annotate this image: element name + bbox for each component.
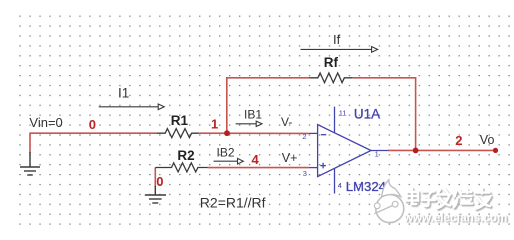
wire feedback top right <box>353 77 417 79</box>
svg-text:R1: R1 <box>171 113 189 128</box>
op-amp power pin 11 <box>334 107 336 133</box>
svg-text:0: 0 <box>89 117 96 132</box>
junction node 1 <box>224 130 230 136</box>
svg-text:R2=R1//Rf: R2=R1//Rf <box>200 194 266 210</box>
svg-text:11: 11 <box>339 109 347 118</box>
svg-text:Vin=0: Vin=0 <box>29 115 62 130</box>
junction output <box>413 148 419 154</box>
svg-text:4: 4 <box>338 181 342 190</box>
svg-text:2: 2 <box>302 132 306 141</box>
svg-text:1: 1 <box>211 117 218 132</box>
wire Vin node 0 horizontal <box>30 132 156 134</box>
wire R2 ground corner vertical <box>154 168 156 188</box>
svg-text:Rf: Rf <box>324 55 339 70</box>
svg-text:V-: V- <box>281 115 292 129</box>
output end dot <box>493 148 498 153</box>
svg-text:www.elecfans.com: www.elecfans.com <box>403 211 507 224</box>
svg-text:3: 3 <box>303 169 307 178</box>
op-amp plus sign <box>320 163 326 169</box>
svg-text:IB2: IB2 <box>217 146 235 160</box>
op-amp minus sign <box>321 134 326 136</box>
ground <box>20 167 40 175</box>
wire feedback left vertical <box>226 78 228 133</box>
op-amp U1A triangle <box>318 125 371 177</box>
ground 2 <box>145 195 166 203</box>
resistor R1 <box>156 129 199 138</box>
svg-text:If: If <box>333 32 341 47</box>
resistor R2 <box>155 163 207 172</box>
svg-text:0: 0 <box>156 174 163 189</box>
wire left vertical to ground <box>29 133 31 154</box>
resistor Rf <box>309 73 353 83</box>
ground lead (black) <box>29 152 31 167</box>
wire node1 to op-amp V- <box>199 132 309 134</box>
svg-text:V+: V+ <box>282 151 298 165</box>
wire feedback top left <box>226 77 309 79</box>
arrow If <box>301 47 378 53</box>
svg-text:2: 2 <box>455 133 462 148</box>
svg-text:U1A: U1A <box>354 106 380 121</box>
ground 2 lead (black) <box>154 186 156 195</box>
svg-text:I1: I1 <box>118 86 129 101</box>
op-amp U1A pin 2 stub <box>309 132 318 134</box>
svg-text:4: 4 <box>252 152 260 167</box>
op-amp power pin 4 <box>334 168 336 193</box>
svg-text:IB1: IB1 <box>244 107 262 121</box>
wire feedback right vertical <box>415 78 417 151</box>
arrow IB1 <box>236 121 262 126</box>
wire R2 to op-amp V+ <box>208 167 309 169</box>
svg-text:Vo: Vo <box>480 133 495 147</box>
watermark logo circle <box>374 180 404 223</box>
op-amp U1A pin 3 stub <box>309 167 318 169</box>
svg-text:LM324: LM324 <box>346 179 386 194</box>
arrow IB2 <box>214 158 244 164</box>
wire output <box>388 149 496 151</box>
watermark Chinese characters (approximated strokes) <box>407 189 492 210</box>
svg-text:1: 1 <box>375 149 379 158</box>
op-amp output stub <box>371 150 389 152</box>
arrow I1 <box>99 104 165 110</box>
svg-text:R2: R2 <box>177 148 194 163</box>
